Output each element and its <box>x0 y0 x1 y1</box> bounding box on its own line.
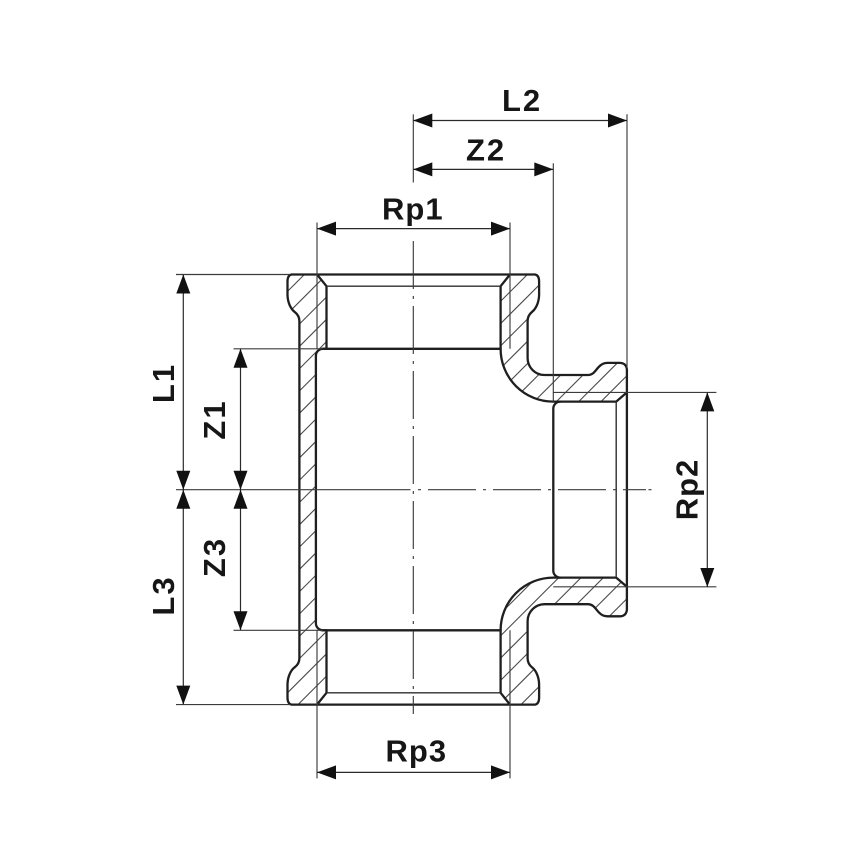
arrowhead Rp1 right <box>491 222 510 236</box>
arrowhead Rp2 top <box>700 392 714 411</box>
horizontal centerline (branch axis) <box>418 489 646 491</box>
dimension line Rp2 <box>706 392 708 587</box>
arrowhead Z3 top <box>234 490 248 509</box>
right wall outline lower (branch bottom to run) <box>501 578 627 705</box>
arrowhead L3 top <box>176 490 190 509</box>
dimension texts <box>146 83 705 769</box>
dimension line Z2 <box>413 168 553 170</box>
extension line branch end face (L2) <box>626 114 628 368</box>
extension line center axis <box>176 489 411 491</box>
branch mouth chamfer edge <box>615 402 617 578</box>
extension line bottom shoulder <box>234 629 323 631</box>
arrowheads <box>176 114 714 780</box>
branch shoulder edge <box>553 402 560 578</box>
thread major line left (Rp1/Rp3 extension) <box>316 223 318 349</box>
svg-text:Rp3: Rp3 <box>386 734 448 769</box>
centerlines dash-dot <box>413 241 651 714</box>
arrowhead Z2 right <box>534 162 553 176</box>
section hatching of fitting walls <box>0 250 850 740</box>
face line across top mouth <box>317 273 510 275</box>
arrowhead Z2 left <box>413 162 432 176</box>
extension line bottom face <box>176 704 290 706</box>
arrowhead Rp1 left <box>317 222 336 236</box>
svg-text:Z1: Z1 <box>197 399 232 439</box>
thread major line right (Rp1 extension) <box>509 223 511 349</box>
bottom mouth chamfer edge <box>327 692 501 694</box>
dimension line L1 <box>182 275 184 490</box>
extension line top face <box>176 274 290 276</box>
extension line branch socket shoulder (Z2) <box>552 163 554 401</box>
svg-text:L3: L3 <box>146 575 181 615</box>
dimension line Z3 <box>240 490 242 631</box>
svg-text:Rp1: Rp1 <box>382 192 444 227</box>
extension line run axis (L2/Z2) <box>412 114 414 182</box>
hatch lines generated <box>0 250 307 740</box>
arrowhead L1 bottom <box>176 471 190 490</box>
thin lines: thread majors + extensions <box>176 114 716 778</box>
left wall outline of tee body <box>287 275 326 705</box>
shoulder edge bottom <box>323 629 501 631</box>
arrowhead Z3 bottom <box>234 611 248 630</box>
face line across bottom mouth <box>317 703 510 705</box>
svg-text:L2: L2 <box>502 83 542 118</box>
arrowhead Rp3 left <box>317 765 336 779</box>
arrowhead L2 left <box>413 114 432 128</box>
right wall outline upper (run to branch top) <box>501 275 627 402</box>
vertical centerline (run axis) <box>412 241 414 714</box>
arrowhead Rp3 right <box>491 765 510 779</box>
medium chamfer-edge lines <box>327 286 617 693</box>
arrowhead Rp2 bottom <box>700 568 714 587</box>
dimension line L3 <box>182 490 184 705</box>
svg-text:Rp2: Rp2 <box>670 459 705 521</box>
arrowhead L2 right <box>608 114 627 128</box>
branch thread major bottom (Rp2 extension) <box>553 586 716 588</box>
dimension line Rp1 <box>317 228 510 230</box>
svg-text:Z3: Z3 <box>197 537 232 577</box>
thread major line bottom-left (Rp3 extension) <box>316 630 318 778</box>
top mouth chamfer edge <box>327 285 501 287</box>
arrowhead L1 top <box>176 275 190 294</box>
branch thread major top (Rp2 extension) <box>553 391 716 393</box>
thick outlines <box>287 275 626 705</box>
arrowhead Z1 top <box>234 349 248 368</box>
svg-text:L1: L1 <box>146 363 181 403</box>
dimension line L2 <box>413 120 627 122</box>
svg-text:Z2: Z2 <box>466 133 506 168</box>
arrowhead Z1 bottom <box>234 471 248 490</box>
arrowhead L3 bottom <box>176 686 190 705</box>
face line across branch mouth <box>626 392 628 586</box>
thread major line bottom-right (Rp3 extension) <box>509 630 511 778</box>
dimension line Rp3 <box>317 771 510 773</box>
extension line top shoulder <box>234 348 323 350</box>
shoulder edge top <box>323 348 501 350</box>
dimension line Z1 <box>240 349 242 490</box>
